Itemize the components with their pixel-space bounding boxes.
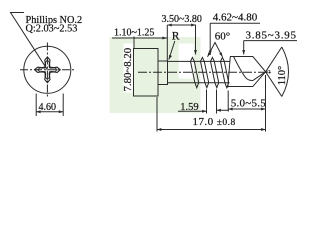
svg-text:5.0~5.5: 5.0~5.5 xyxy=(231,98,266,110)
svg-text:17.0 ±0.8: 17.0 ±0.8 xyxy=(193,116,236,128)
svg-text:110°: 110° xyxy=(277,66,288,86)
svg-text:Q:2.03~2.53: Q:2.03~2.53 xyxy=(26,24,78,35)
svg-text:4.60: 4.60 xyxy=(39,102,57,113)
svg-text:R: R xyxy=(172,31,180,43)
svg-text:3.50~3.80: 3.50~3.80 xyxy=(162,14,202,25)
svg-text:7.80~8.20: 7.80~8.20 xyxy=(122,48,134,92)
svg-text:60°: 60° xyxy=(215,31,230,43)
svg-text:3.85~3.95: 3.85~3.95 xyxy=(246,30,297,42)
svg-text:4.62~4.80: 4.62~4.80 xyxy=(213,12,258,24)
